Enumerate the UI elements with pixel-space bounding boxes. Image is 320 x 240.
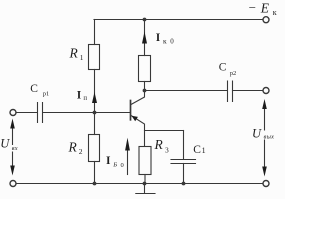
svg-text:Б: Б	[112, 162, 117, 169]
arrow IK0 collector current	[142, 32, 147, 44]
terminal output top	[263, 88, 269, 94]
svg-text:R: R	[69, 46, 79, 61]
svg-text:2: 2	[79, 147, 83, 156]
svg-text:р2: р2	[230, 70, 237, 77]
wire R1 bottom to base node	[94, 70, 96, 113]
svg-text:U: U	[252, 127, 262, 141]
svg-text:вх: вх	[12, 145, 18, 152]
svg-text:0: 0	[121, 162, 124, 169]
resistor Rk collector	[139, 56, 151, 82]
wire C1 top	[183, 131, 185, 160]
wire R2 bottom	[94, 162, 96, 184]
resistor R2	[89, 135, 100, 162]
wire Rk top with IK0	[144, 20, 146, 56]
label IK0	[156, 32, 175, 46]
wire collector to Cp2	[145, 90, 228, 92]
resistor R3	[139, 147, 151, 175]
wire R2 top	[94, 113, 96, 135]
label Uin	[0, 136, 17, 152]
svg-text:R: R	[154, 137, 164, 152]
arrow Uout double	[262, 99, 267, 177]
svg-text:C: C	[219, 61, 227, 73]
terminal -EK top right	[263, 17, 269, 23]
wire R1 top	[94, 20, 96, 45]
label R3	[154, 137, 170, 154]
svg-text:I: I	[77, 90, 82, 102]
svg-text:C: C	[30, 83, 38, 95]
wire top rail	[94, 19, 263, 21]
wire input to Cp1	[16, 112, 37, 114]
svg-text:3: 3	[165, 145, 169, 154]
svg-text:U: U	[0, 136, 10, 150]
node R3 bottom junction	[143, 182, 147, 186]
svg-text:р1: р1	[43, 91, 50, 98]
node collector junction	[143, 89, 147, 93]
resistor R1	[89, 45, 100, 70]
transistor VT1 emitter lead	[131, 116, 145, 147]
svg-text:I: I	[106, 155, 111, 167]
arrow IB0 base current	[125, 138, 130, 175]
capacitor C1	[171, 160, 196, 164]
svg-text:п: п	[83, 95, 87, 102]
arrow Uin double	[10, 119, 15, 176]
svg-text:R: R	[68, 140, 78, 155]
node base junction	[93, 111, 97, 115]
svg-text:I: I	[156, 32, 161, 44]
label In divider current	[77, 90, 88, 102]
arrow In divider current	[92, 92, 97, 103]
terminal input top	[10, 110, 16, 116]
terminal output bottom	[263, 181, 269, 187]
label IB0	[106, 155, 124, 169]
transistor VT1 base bar	[130, 101, 132, 120]
wire emitter branch to C1	[145, 130, 184, 132]
svg-text:к: к	[273, 8, 277, 17]
svg-text:1: 1	[202, 146, 206, 155]
label -EK	[248, 0, 277, 17]
ground	[136, 184, 155, 194]
svg-text:1: 1	[80, 53, 84, 62]
label Cp1	[30, 83, 49, 98]
wire Cp2 to output	[233, 90, 263, 92]
transistor VT1 collector lead	[131, 91, 145, 105]
label Uout	[252, 127, 274, 141]
wire C1 bottom	[183, 164, 185, 184]
wire Rk bottom	[144, 82, 146, 91]
capacitor Cp1	[38, 103, 43, 123]
svg-text:−: −	[248, 0, 257, 15]
label C1	[193, 144, 205, 156]
label R2	[68, 140, 83, 157]
terminal input bottom	[10, 181, 16, 187]
label R1	[69, 46, 84, 62]
label Cp2	[219, 61, 236, 77]
capacitor Cp2	[228, 81, 233, 102]
svg-text:C: C	[193, 144, 201, 156]
node junction top collector branch	[143, 18, 147, 22]
wire R3 bottom	[144, 175, 146, 184]
transistor VT1 emitter arrow (PNP)	[132, 116, 138, 121]
svg-text:к: к	[163, 37, 167, 46]
wire Cp1 to base	[43, 112, 130, 114]
node C1 bottom junction	[182, 182, 186, 186]
wire bottom rail	[16, 183, 263, 185]
svg-text:E: E	[260, 1, 270, 16]
svg-text:0: 0	[170, 38, 174, 46]
node R2 bottom junction	[93, 182, 97, 186]
svg-text:вых: вых	[264, 134, 275, 141]
